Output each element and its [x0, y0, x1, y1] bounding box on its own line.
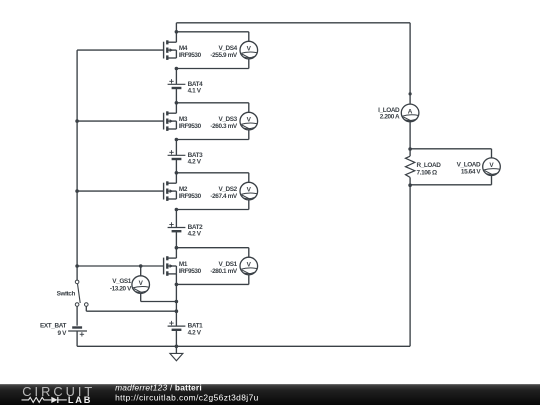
- svg-text:madferret123 / batteri: madferret123 / batteri: [115, 383, 202, 393]
- label V_DS3: [210, 116, 238, 130]
- svg-text:9 V: 9 V: [58, 330, 68, 337]
- label M1: [179, 261, 202, 275]
- node: source of M4: [175, 67, 179, 71]
- node: source of M2: [175, 208, 179, 212]
- svg-text:R_LOAD: R_LOAD: [417, 162, 442, 169]
- node: gate bus junction at M1: [75, 264, 79, 268]
- wire: V_LOAD loop bottom: [410, 176, 491, 185]
- wire: bus into drain of M1: [175, 248, 177, 258]
- label EXT_BAT: [40, 323, 67, 337]
- svg-text:IRF9530: IRF9530: [179, 52, 202, 59]
- wire: V_DS4 loop bottom: [176, 59, 248, 69]
- node: R_LOAD bottom junction: [408, 183, 412, 187]
- svg-text:-280.1 mV: -280.1 mV: [210, 268, 238, 275]
- battery BAT2: [168, 222, 186, 231]
- label V_DS2: [210, 186, 238, 200]
- wire: top rail from main bus to load branch: [176, 22, 410, 24]
- node: gate bus junction at M3: [75, 119, 79, 123]
- CircuitLab logo resistor-diode glyph: [22, 397, 67, 403]
- svg-text:-13.20 V: -13.20 V: [110, 286, 132, 293]
- wire: EXT_BAT to bottom rail: [76, 331, 78, 346]
- wire: bottom rail: [77, 345, 410, 347]
- wire: bus into drain of M2: [175, 173, 177, 183]
- voltmeter V_DS3: [240, 112, 258, 130]
- voltmeter V_DS4: [240, 41, 258, 59]
- label Switch: [57, 291, 76, 298]
- wire: V_DS2 loop bottom: [176, 200, 248, 210]
- svg-text:V: V: [247, 187, 252, 194]
- voltmeter V_DS2: [240, 182, 258, 200]
- label I_LOAD: [378, 107, 400, 121]
- resistor R_LOAD: [406, 156, 415, 177]
- node: ground junction: [175, 345, 179, 349]
- wire: ammeter to R_LOAD: [409, 122, 411, 156]
- wire: bus from V_DS4 loop to BAT4: [175, 69, 177, 85]
- svg-text:V_LOAD: V_LOAD: [457, 161, 481, 168]
- voltmeter V_GS1: [132, 276, 150, 294]
- wire: bus from V_DS3 loop to BAT3: [175, 140, 177, 156]
- svg-text:Switch: Switch: [57, 291, 76, 298]
- wire: V_DS4 loop top: [176, 32, 248, 42]
- node: switch throw tap: [175, 309, 179, 313]
- battery BAT1: [168, 321, 186, 330]
- label M2: [179, 186, 202, 200]
- wire: bus from M1 source down to BAT1: [175, 274, 177, 326]
- svg-text:IRF9530: IRF9530: [179, 123, 202, 130]
- svg-text:-255.9 mV: -255.9 mV: [210, 52, 238, 59]
- node: source of M3: [175, 138, 179, 142]
- svg-text:V: V: [247, 117, 252, 124]
- wire: bus from BAT3 to next stage: [175, 159, 177, 173]
- label R_LOAD: [417, 162, 442, 177]
- label BAT4: [188, 81, 204, 95]
- transistor M2 IRF9530 (P-MOSFET): [77, 181, 176, 201]
- node: ammeter positive terminal: [409, 92, 412, 95]
- footer url text: [115, 393, 259, 403]
- wire: bus from V_DS2 loop to BAT2: [175, 210, 177, 228]
- wire: V_GS1 top lead: [140, 266, 142, 276]
- CircuitLab logo wordmark: [22, 384, 95, 405]
- node: R_LOAD top junction: [408, 147, 412, 151]
- wire: bus from BAT4 to next stage: [175, 88, 177, 103]
- wire: bus from BAT2 to next stage: [175, 231, 177, 248]
- wire: V_DS1 loop bottom: [176, 275, 248, 285]
- ground: [170, 346, 183, 361]
- label V_DS1: [210, 261, 238, 275]
- wire: left gate bus: [76, 50, 78, 280]
- label M4: [179, 45, 202, 59]
- svg-text:V: V: [247, 261, 252, 268]
- wire: V_DS1 loop top: [176, 248, 248, 258]
- battery BAT4: [168, 79, 186, 88]
- svg-text:V: V: [139, 280, 144, 287]
- wire: V_LOAD loop top: [410, 149, 491, 158]
- battery EXT_BAT: [68, 328, 87, 337]
- svg-text:V: V: [247, 46, 252, 53]
- node: V_GS1 negative tap: [175, 300, 179, 304]
- wire: V_DS3 loop bottom: [176, 130, 248, 140]
- transistor M1 IRF9530 (P-MOSFET): [77, 256, 176, 276]
- svg-text:7.106 Ω: 7.106 Ω: [417, 170, 437, 177]
- wire: V_GS1 bottom lead to M1 source node: [141, 293, 177, 301]
- wire: V_DS3 loop top: [176, 103, 248, 113]
- svg-text:4.2 V: 4.2 V: [188, 329, 202, 336]
- svg-text:http://circuitlab.com/c2g56zt3: http://circuitlab.com/c2g56zt3d8j7u: [115, 393, 259, 403]
- label V_DS4: [210, 45, 238, 59]
- svg-text:V_GS1: V_GS1: [112, 278, 132, 285]
- transistor M4 IRF9530 (P-MOSFET): [77, 40, 176, 60]
- label BAT2: [188, 224, 204, 238]
- svg-text:2.200 A: 2.200 A: [380, 114, 400, 121]
- footer credit text: [115, 383, 202, 393]
- svg-text:4.1 V: 4.1 V: [188, 88, 202, 95]
- node: gate bus junction at M2: [75, 189, 79, 193]
- node: drain of M1: [175, 246, 179, 250]
- wire: right load wire upper: [409, 23, 411, 104]
- wire: bus into drain of M3: [175, 103, 177, 113]
- wire: switch left throw down to EXT_BAT: [76, 306, 78, 325]
- voltmeter V_DS1: [240, 257, 258, 275]
- svg-text:V: V: [489, 162, 494, 169]
- svg-text:LAB: LAB: [68, 395, 92, 405]
- node: drain of M4: [175, 30, 179, 34]
- node: source of M1: [175, 283, 179, 287]
- wire: V_DS2 loop top: [176, 173, 248, 183]
- label BAT3: [188, 152, 204, 166]
- ammeter I_LOAD: [401, 104, 419, 122]
- svg-text:4.2 V: 4.2 V: [188, 159, 202, 166]
- node: drain of M2: [175, 171, 179, 175]
- svg-text:A: A: [408, 108, 413, 115]
- svg-text:15.64 V: 15.64 V: [461, 169, 481, 176]
- wire: bus from BAT1 to bottom rail: [175, 330, 177, 347]
- node: drain of M3: [175, 101, 179, 105]
- svg-text:4.2 V: 4.2 V: [188, 231, 202, 238]
- footer bar: [0, 384, 540, 405]
- svg-text:IRF9530: IRF9530: [179, 268, 202, 275]
- label V_LOAD: [457, 161, 482, 175]
- battery BAT3: [168, 150, 186, 159]
- label M3: [179, 116, 202, 130]
- svg-text:-267.4 mV: -267.4 mV: [210, 193, 238, 200]
- svg-text:EXT_BAT: EXT_BAT: [40, 323, 66, 330]
- voltmeter V_LOAD: [483, 158, 501, 176]
- label V_GS1: [110, 278, 132, 293]
- svg-text:-260.3 mV: -260.3 mV: [210, 123, 238, 130]
- svg-text:IRF9530: IRF9530: [179, 193, 202, 200]
- label BAT1: [188, 323, 204, 337]
- transistor M3 IRF9530 (P-MOSFET): [77, 111, 176, 131]
- wire: main vertical bus top segment: [175, 23, 177, 42]
- wire: switch right throw to M1 source node: [86, 306, 176, 311]
- node: V_GS1 gate tap on M1 gate wire: [139, 264, 143, 268]
- switch SW1 (SPDT): [75, 280, 88, 306]
- wire: R_LOAD bottom to bottom rail: [409, 177, 411, 346]
